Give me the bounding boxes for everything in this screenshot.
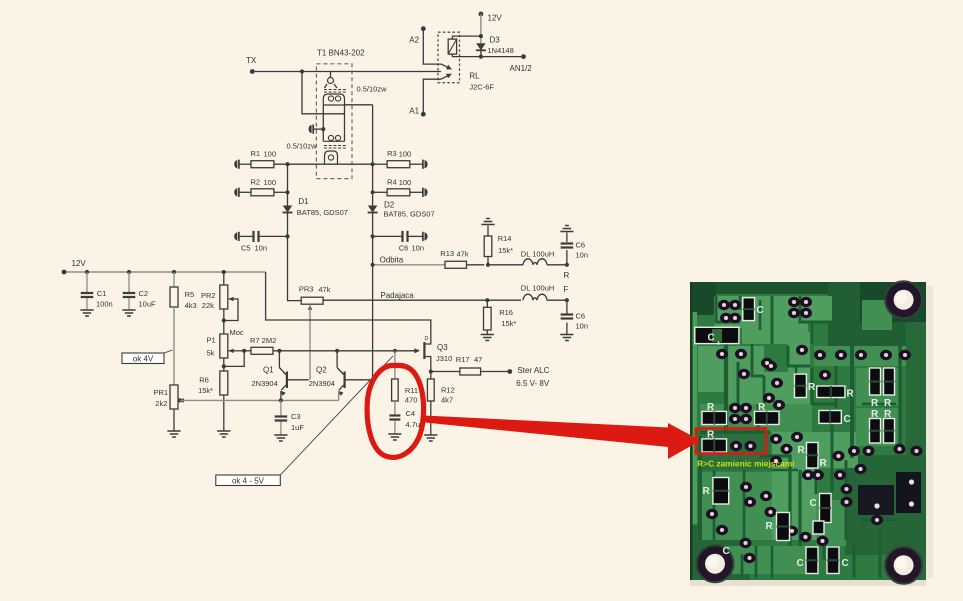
label R3 100 <box>387 149 411 159</box>
transistor Q1 2N3904 <box>279 351 308 401</box>
svg-text:4k7: 4k7 <box>441 396 453 405</box>
svg-text:+: + <box>717 341 721 348</box>
label R17 47 <box>456 355 483 364</box>
svg-text:C6: C6 <box>576 312 586 321</box>
svg-text:R: R <box>847 389 855 400</box>
label Q3 <box>437 343 448 352</box>
svg-text:R: R <box>798 445 806 456</box>
svg-text:D: D <box>425 336 429 342</box>
label Q3 D pin <box>425 336 429 342</box>
svg-text:J310: J310 <box>436 354 452 363</box>
potentiometer PR1 <box>170 385 184 431</box>
capacitor C5 <box>234 231 289 242</box>
label 0.5/10zw right <box>357 85 388 94</box>
svg-text:10n: 10n <box>576 251 589 260</box>
svg-text:C1: C1 <box>97 289 107 298</box>
label 1N4148 <box>488 46 514 55</box>
resistor R16 <box>484 300 492 334</box>
label R14 15k* <box>498 234 513 255</box>
svg-text:10n: 10n <box>576 322 589 331</box>
svg-text:15k*: 15k* <box>198 386 213 395</box>
PCB mounting hole bottom-right <box>885 547 922 584</box>
diode D2 BAT85 <box>368 206 378 213</box>
label DL 100uH Odbita <box>521 250 555 259</box>
label C5 10n <box>241 244 267 253</box>
wire 12V rail <box>62 270 266 275</box>
svg-text:C4: C4 <box>406 409 416 418</box>
relay contact arrows <box>441 64 452 79</box>
label ok 4V box <box>122 350 173 364</box>
svg-text:D2: D2 <box>384 201 395 210</box>
capacitor C1 <box>81 272 94 310</box>
svg-text:C5: C5 <box>241 244 251 253</box>
svg-text:100: 100 <box>264 178 277 187</box>
label R13 47k <box>440 249 469 259</box>
resistor R12 4k7 <box>427 372 434 435</box>
svg-text:100: 100 <box>399 150 412 159</box>
label R6 15k* <box>198 376 213 396</box>
label Odbita <box>380 256 404 265</box>
svg-text:R6: R6 <box>199 376 209 385</box>
resistor R7 2M2 <box>251 347 419 354</box>
ground above R14 <box>481 219 494 225</box>
wire TX line <box>246 56 441 74</box>
ground C1 <box>80 310 93 316</box>
svg-text:C: C <box>810 498 817 509</box>
label T1 <box>317 49 365 58</box>
svg-text:47k: 47k <box>318 285 330 294</box>
wire Odbita <box>371 263 446 267</box>
svg-text:1uF: 1uF <box>291 423 304 432</box>
wire A1 to contact <box>423 79 441 114</box>
red highlight rectangle on PCB <box>696 429 766 454</box>
svg-text:TX: TX <box>246 56 257 65</box>
potentiometer PR3 <box>301 297 323 310</box>
capacitor C6 R <box>561 233 574 267</box>
ground R12 <box>424 435 437 441</box>
label 6.5V-8V <box>516 379 550 388</box>
PCB mounting hole top-right <box>885 281 922 318</box>
svg-text:4k3: 4k3 <box>185 301 197 310</box>
svg-text:PR3: PR3 <box>299 285 314 294</box>
label D3 <box>490 36 501 45</box>
svg-text:Moc: Moc <box>230 328 244 337</box>
ground C2 <box>122 310 135 316</box>
capacitor C3 <box>275 400 288 434</box>
svg-text:12V: 12V <box>72 259 87 268</box>
svg-text:6.5 V- 8V: 6.5 V- 8V <box>516 379 550 388</box>
svg-text:0.5/10zw: 0.5/10zw <box>287 142 318 151</box>
svg-text:C: C <box>797 558 804 569</box>
potentiometer P1 <box>220 334 244 371</box>
svg-text:J2C-6F: J2C-6F <box>469 83 494 92</box>
svg-text:C: C <box>723 546 730 557</box>
label Moc <box>230 328 244 337</box>
node A2 <box>409 26 425 44</box>
transistor Q2 2N3904 <box>337 351 373 401</box>
svg-text:T1 BN43-202: T1 BN43-202 <box>317 49 365 58</box>
label PR3 47k <box>299 285 331 295</box>
ground C3 <box>274 435 287 441</box>
wire relay coil top <box>452 36 481 39</box>
label R>C note <box>697 459 795 469</box>
svg-text:C: C <box>708 333 715 344</box>
label Q2 type <box>309 379 335 388</box>
svg-text:R2: R2 <box>251 178 261 187</box>
svg-text:R7 2M2: R7 2M2 <box>250 336 276 345</box>
wire T1 branch <box>300 69 345 113</box>
capacitor C2 <box>123 272 136 310</box>
transistor Q3 J310 <box>412 342 431 372</box>
svg-text:47k: 47k <box>457 250 469 259</box>
label C6 10n detector <box>399 244 424 253</box>
connector jack T1 tap <box>309 125 324 134</box>
relay RL dashed box <box>438 32 460 82</box>
svg-text:AN1/2: AN1/2 <box>510 64 533 73</box>
label R1 100 <box>251 149 277 159</box>
svg-text:R16: R16 <box>499 308 513 317</box>
wire emitter bus <box>180 398 339 402</box>
svg-text:R3: R3 <box>387 149 397 158</box>
label DL 100uH Padajaca <box>521 284 555 293</box>
svg-text:PR2: PR2 <box>201 291 216 300</box>
svg-text:5k: 5k <box>207 349 215 358</box>
capacitor C6 detector <box>371 231 428 242</box>
label R2 100 <box>251 178 277 188</box>
ground PR1 <box>167 431 180 437</box>
transformer T1 winding lower <box>323 135 346 164</box>
svg-text:R: R <box>564 271 570 280</box>
svg-text:Ster ALC: Ster ALC <box>517 366 549 375</box>
svg-text:BAT85, GDS07: BAT85, GDS07 <box>297 208 348 217</box>
diode D1 BAT85 <box>283 206 293 213</box>
resistor R17 47 <box>429 368 513 375</box>
label C6 10n F <box>576 312 589 331</box>
svg-text:Q2: Q2 <box>316 366 327 375</box>
svg-text:0.5/10zw: 0.5/10zw <box>357 85 388 94</box>
wire T1 upper exit <box>345 104 373 106</box>
relay RL coil <box>448 39 456 54</box>
svg-text:D1: D1 <box>298 197 309 206</box>
svg-text:R17: R17 <box>456 355 470 364</box>
svg-text:A2: A2 <box>409 36 419 45</box>
svg-text:R: R <box>820 458 828 469</box>
svg-text:470: 470 <box>405 396 418 405</box>
resistor R2 <box>234 188 289 197</box>
label 12V relay <box>479 12 503 23</box>
node F <box>564 285 569 294</box>
label D2 type <box>384 210 435 219</box>
diode D3 1N4148 <box>476 43 486 58</box>
svg-text:12V: 12V <box>488 14 503 23</box>
svg-text:Padajaca: Padajaca <box>380 291 414 300</box>
inductor DL Padajaca <box>523 294 567 300</box>
ground below R16 <box>481 335 494 341</box>
svg-text:ok 4 - 5V: ok 4 - 5V <box>232 477 265 486</box>
wire right detector vertical <box>372 105 374 380</box>
label R7 2M2 <box>250 336 276 345</box>
svg-text:R: R <box>703 486 711 497</box>
wire Padajaca <box>323 298 521 302</box>
svg-text:R: R <box>766 521 774 532</box>
label AN1/2 <box>510 64 533 73</box>
ground above C6 R <box>560 226 573 232</box>
transformer T1 winding upper <box>323 72 346 106</box>
label C1 100n <box>96 289 113 309</box>
label C4 4.7uF <box>406 409 426 429</box>
svg-text:ok 4V: ok 4V <box>133 355 154 364</box>
wire R11 branch <box>394 351 396 379</box>
wire relay coil bottom <box>452 54 525 59</box>
svg-text:22k: 22k <box>202 301 214 310</box>
resistor R13 <box>445 261 484 268</box>
label D1 type <box>297 208 348 217</box>
node R <box>564 271 570 280</box>
svg-text:15k*: 15k* <box>498 246 513 255</box>
svg-text:100: 100 <box>264 150 277 159</box>
resistor R1 <box>234 160 374 169</box>
transformer T1 dashed box <box>316 64 352 179</box>
resistor R11 470 <box>392 379 399 415</box>
svg-text:10n: 10n <box>255 244 268 253</box>
label 12V left <box>72 259 87 268</box>
label R4 100 <box>387 178 411 188</box>
svg-text:100: 100 <box>399 178 412 187</box>
svg-text:15k*: 15k* <box>501 319 516 328</box>
red ellipse around R11 C4 <box>367 365 424 457</box>
ground below C6 F <box>560 335 573 341</box>
resistor R14 <box>484 226 492 267</box>
wire A2 to contact <box>423 29 441 64</box>
svg-text:C6: C6 <box>399 244 409 253</box>
svg-text:R: R <box>871 398 879 409</box>
svg-text:R14: R14 <box>498 234 512 243</box>
label PR2 22k <box>201 291 216 310</box>
svg-text:10n: 10n <box>412 244 425 253</box>
svg-text:C3: C3 <box>291 412 301 421</box>
label D1 <box>298 197 309 206</box>
wire 12V to D3 <box>479 14 483 44</box>
svg-text:R11: R11 <box>405 386 418 395</box>
PCB pads <box>695 297 923 563</box>
svg-text:BAT85, GDS07: BAT85, GDS07 <box>384 210 435 219</box>
svg-text:100n: 100n <box>96 300 113 309</box>
wire T1 left drop <box>321 105 325 141</box>
svg-text:DL 100uH: DL 100uH <box>521 250 555 259</box>
svg-text:RL: RL <box>469 72 480 81</box>
svg-text:R>C zamienic miejscami: R>C zamienic miejscami <box>697 459 795 469</box>
label Q1 <box>263 366 274 375</box>
svg-text:10uF: 10uF <box>139 300 157 309</box>
svg-text:C: C <box>842 558 849 569</box>
PCB photo board <box>690 282 933 586</box>
svg-text:PR1: PR1 <box>154 388 169 397</box>
svg-text:R4: R4 <box>387 178 397 187</box>
wire left detector vertical <box>288 164 302 300</box>
svg-text:47: 47 <box>474 355 482 364</box>
svg-text:F: F <box>564 285 569 294</box>
svg-text:2N3904: 2N3904 <box>309 379 335 388</box>
label P1 5k <box>207 336 216 358</box>
svg-text:R: R <box>808 382 816 393</box>
ground R6 <box>217 431 230 437</box>
svg-text:2k2: 2k2 <box>155 399 167 408</box>
PCB components <box>695 298 921 574</box>
svg-text:R12: R12 <box>441 386 455 395</box>
wire T1 right vertical <box>344 105 346 142</box>
ground C4 <box>388 434 401 440</box>
potentiometer PR2 <box>220 272 238 334</box>
inductor DL Odbita <box>488 259 567 265</box>
resistor R4 <box>371 188 428 197</box>
svg-text:R1: R1 <box>251 149 261 158</box>
capacitor C6 F <box>561 298 574 334</box>
wire base bus <box>242 349 251 353</box>
svg-text:P1: P1 <box>207 336 216 345</box>
svg-text:Q1: Q1 <box>263 366 274 375</box>
label J310 <box>436 354 452 363</box>
label R12 4k7 <box>441 386 455 405</box>
svg-text:A1: A1 <box>409 107 419 116</box>
svg-text:DL 100uH: DL 100uH <box>521 284 555 293</box>
label 0.5/10zw left <box>287 142 318 151</box>
wire rail to Q3 drain <box>266 272 431 342</box>
red arrow <box>424 416 701 460</box>
label C3 1uF <box>291 412 304 432</box>
wire PR3 wiper drop <box>309 309 311 380</box>
node A1 <box>409 107 425 117</box>
PCB mounting hole bottom-left <box>697 545 734 582</box>
resistor R6 <box>220 371 228 431</box>
label R16 15k* <box>499 308 516 328</box>
label Q1 type <box>252 379 278 388</box>
svg-text:C2: C2 <box>139 289 149 298</box>
svg-text:1N4148: 1N4148 <box>488 46 514 55</box>
svg-text:C6: C6 <box>576 241 586 250</box>
resistor R3 <box>373 160 428 169</box>
label R11 470 <box>405 386 418 405</box>
svg-text:R13: R13 <box>440 249 454 258</box>
svg-text:C: C <box>844 414 851 425</box>
label Padajaca <box>380 291 414 300</box>
label RL <box>469 72 480 81</box>
svg-text:Odbita: Odbita <box>380 256 404 265</box>
svg-text:R5: R5 <box>185 290 195 299</box>
label J2C-6F <box>469 83 494 92</box>
label C2 10uF <box>139 289 157 309</box>
capacitor C4 <box>389 416 400 434</box>
svg-text:D3: D3 <box>490 36 501 45</box>
svg-text:Q3: Q3 <box>437 343 448 352</box>
label PR1 2k2 <box>154 388 169 408</box>
resistor R5 <box>170 272 178 385</box>
label Ster ALC <box>517 366 549 375</box>
label D2 <box>384 201 395 210</box>
label R5 4k3 <box>185 290 197 310</box>
label C6 10n R <box>576 241 589 260</box>
label ok 4-5V box <box>216 356 393 486</box>
svg-text:R: R <box>884 398 892 409</box>
svg-text:2N3904: 2N3904 <box>252 379 278 388</box>
label Q2 <box>316 366 327 375</box>
svg-text:C: C <box>757 305 764 316</box>
